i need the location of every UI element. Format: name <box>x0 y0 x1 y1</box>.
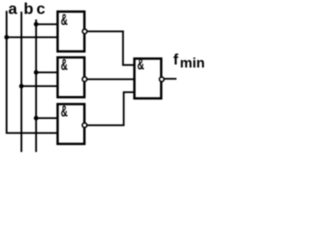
svg-text:&: & <box>137 55 144 73</box>
wire: a to U3 input 2 (bottom corner run) <box>6 132 58 134</box>
wire: c to U2 input 1 <box>36 71 58 73</box>
NAND gate U3 <box>58 102 87 144</box>
wire: c to U3 input 1 <box>36 117 58 119</box>
junction dot on a (to U1) <box>4 35 9 40</box>
svg-text:a: a <box>8 1 17 18</box>
wire: into U4 input 3 <box>123 91 135 93</box>
wire: U1 output vertical drop <box>122 31 124 65</box>
NAND gate U4 <box>134 55 164 98</box>
wire: U4 output f <box>164 78 176 80</box>
junction dot on c (to U3) <box>34 116 39 121</box>
wire: U2 output to U4 input 2 <box>87 78 135 80</box>
svg-text:min: min <box>180 55 205 71</box>
wire: input line a (vertical) <box>6 11 8 133</box>
svg-text:c: c <box>36 1 45 18</box>
wire: U1 output horizontal <box>87 30 124 32</box>
svg-text:b: b <box>24 1 34 18</box>
wire: input line b (vertical) <box>20 12 22 152</box>
svg-text:&: & <box>61 56 68 74</box>
NAND gate U2 <box>58 56 87 98</box>
wire: into U4 input 1 <box>122 64 135 66</box>
wire: input line c (vertical) <box>35 20 37 153</box>
svg-text:&: & <box>61 10 68 28</box>
wire: U3 output vertical rise <box>123 92 125 126</box>
wire: b to U2 input 2 <box>21 85 58 87</box>
junction dot on c (to U2) <box>34 70 39 75</box>
junction dot on b (to U2) <box>19 84 24 89</box>
wire: c to U1 input 1 <box>36 23 58 25</box>
wire: U3 output horizontal <box>87 124 125 126</box>
wire: a to U1 input 2 <box>7 36 58 38</box>
svg-text:&: & <box>61 102 68 120</box>
NAND gate U1 <box>58 10 87 51</box>
junction dot on c (to U1) <box>34 22 39 27</box>
